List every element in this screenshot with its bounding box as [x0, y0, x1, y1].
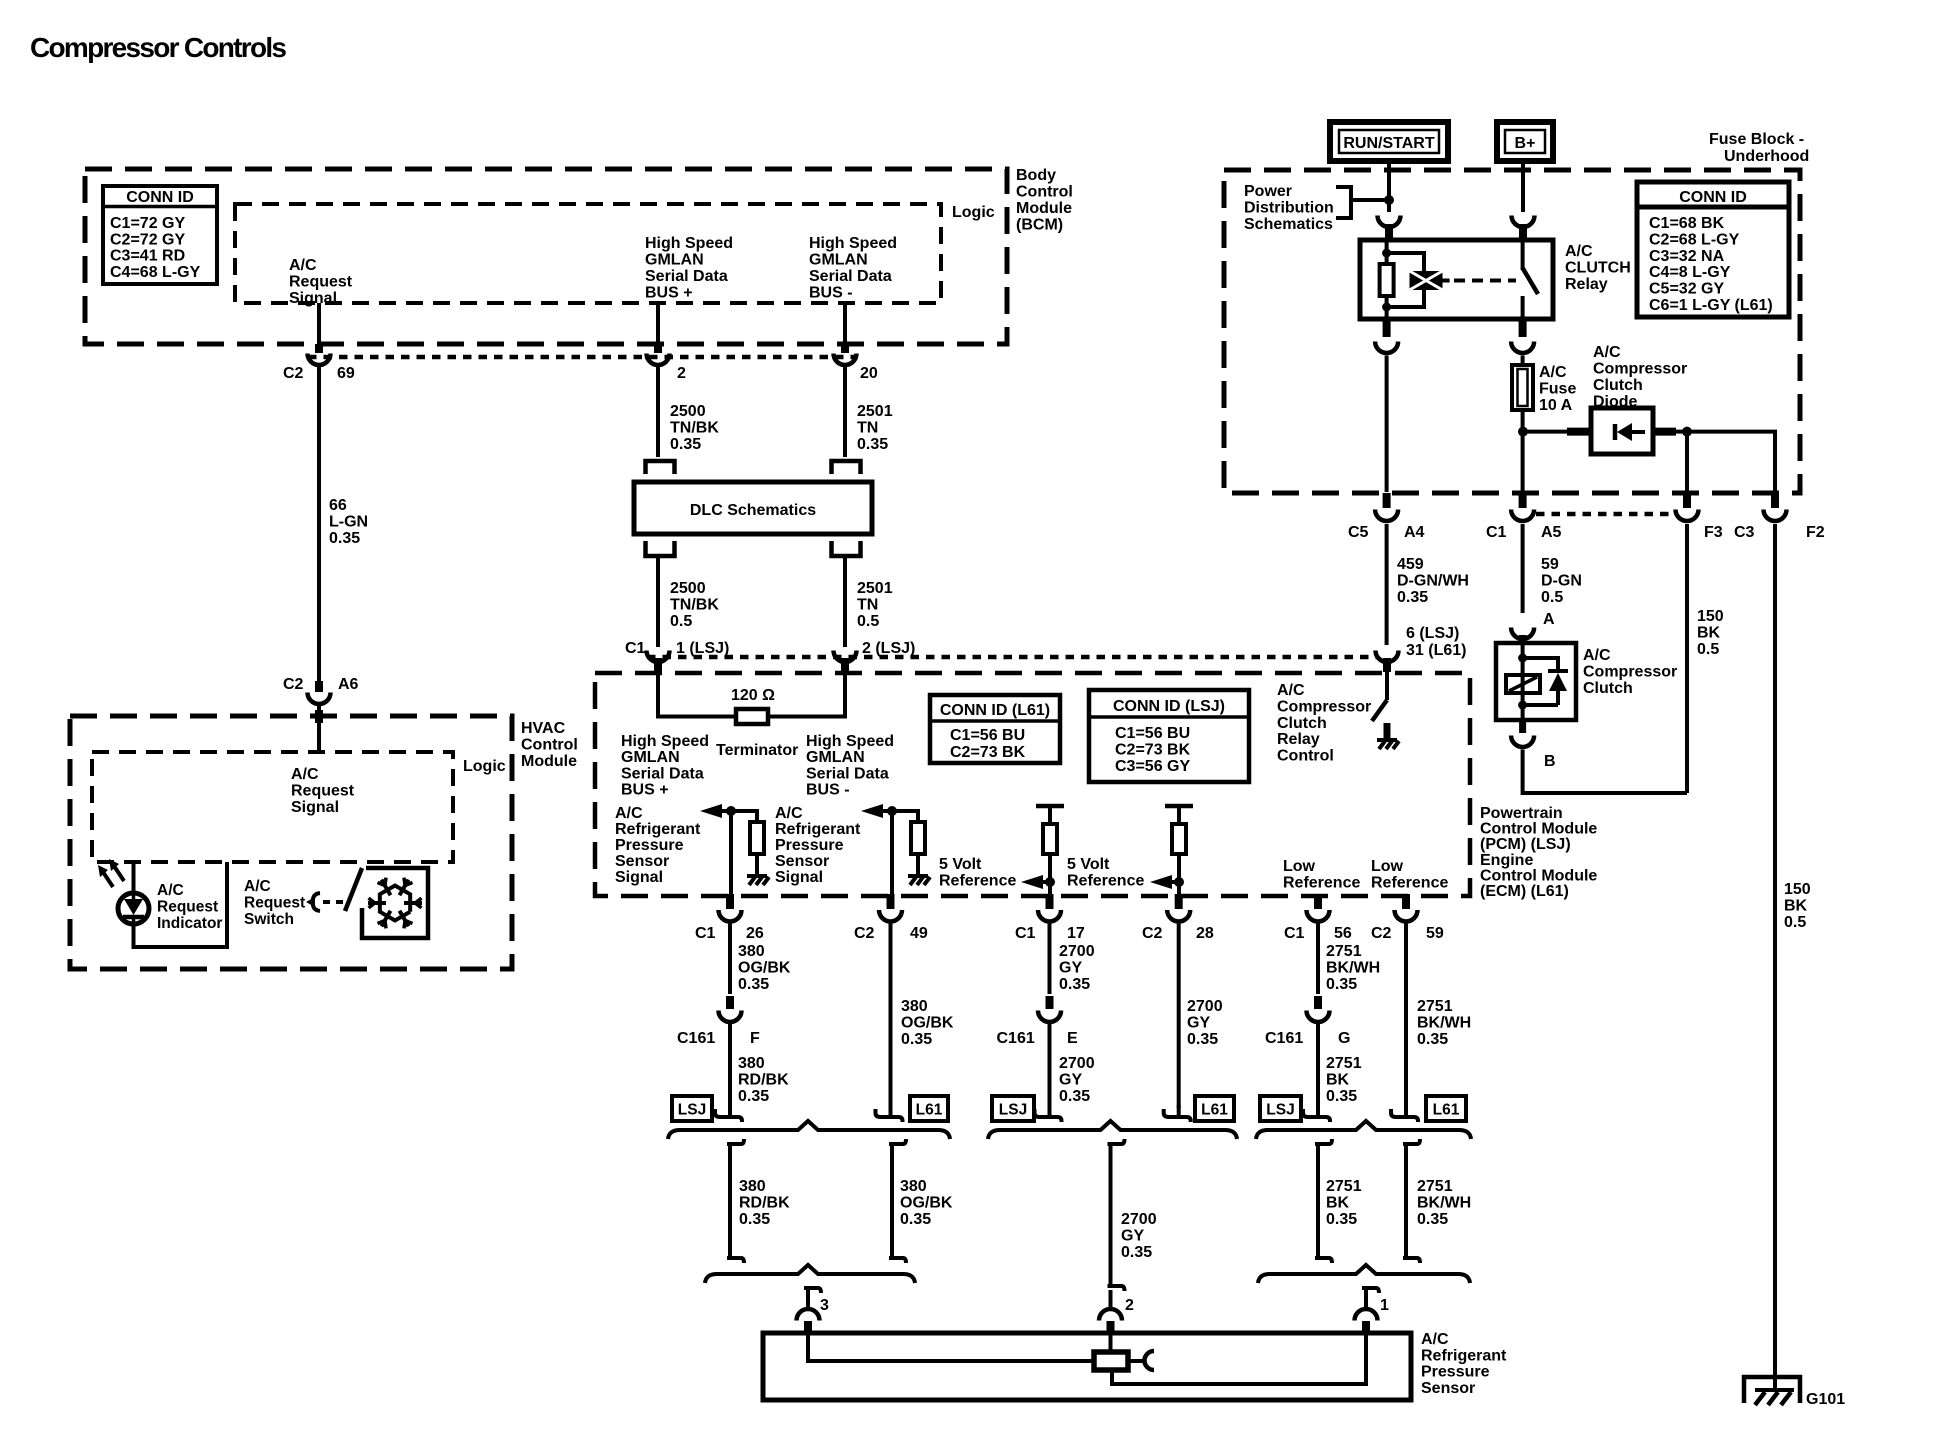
ground: PCM internal (LSJ signal) [747, 876, 769, 885]
wire: circuit 150 BK (F3 leg) [1685, 524, 1689, 793]
svg-text:Control Module: Control Module [1480, 867, 1597, 884]
svg-text:C2: C2 [283, 365, 304, 382]
label: A/C Refrigerant Pressure Sensor [1421, 1331, 1507, 1397]
wire end: E at LSJ [1035, 1105, 1062, 1122]
table: Fuse block CONN ID [1637, 182, 1789, 317]
label: pin 1 [1380, 1297, 1389, 1314]
connector pin 6 LSJ / 31 L61 (PCM) [1376, 651, 1399, 673]
connector C1 pin 56 (PCM bottom) [1307, 894, 1330, 922]
svg-text:Schematics: Schematics [1244, 216, 1333, 233]
svg-text:BK/WH: BK/WH [1417, 1195, 1471, 1212]
svg-text:66: 66 [329, 497, 347, 514]
wire: sensor pin 1 internal [1112, 1334, 1366, 1384]
harness tag: L61 (28) [1195, 1096, 1234, 1121]
label: Low Reference (L61) [1371, 858, 1448, 892]
wire: circuit 59 D-GN (A5 to clutch) [1521, 524, 1525, 613]
svg-text:Compressor: Compressor [1277, 698, 1371, 715]
harness tag: LSJ (G) [1260, 1096, 1301, 1121]
label: C1 (PCM) [625, 640, 646, 657]
label: A/C Request Signal (HVAC) [291, 766, 355, 816]
diode symbol [1615, 423, 1645, 441]
relay coil (solenoid) [1410, 271, 1443, 290]
wire: pin 28 to splice [1177, 923, 1181, 1108]
wire: driver to ground stub [1384, 723, 1391, 738]
svg-text:A/C: A/C [1593, 344, 1621, 361]
label: Low Reference (LSJ) [1283, 858, 1360, 892]
svg-text:A: A [1543, 611, 1555, 628]
svg-text:(PCM) (LSJ): (PCM) (LSJ) [1480, 836, 1571, 853]
wire label: 380 RD/BK 0.35 (C161 F) [738, 1055, 789, 1105]
wire label: 2751 BK 0.35 (C161 G) [1326, 1055, 1362, 1105]
svg-text:TN: TN [857, 597, 878, 614]
wire: circuit 2500 TN/BK 0.35 (BCM to DLC) [656, 367, 660, 458]
svg-text:0.35: 0.35 [739, 1211, 770, 1228]
svg-text:High Speed: High Speed [645, 235, 733, 252]
switch function box (snowflake housing) [362, 868, 428, 938]
label: C1 (pin 26) [695, 925, 716, 942]
5V supply bar (LSJ) [1036, 806, 1064, 824]
wire: LED indicator to logic [132, 862, 136, 893]
diode box: A/C compressor clutch diode [1591, 408, 1653, 454]
table: CONN ID (LSJ) [1089, 690, 1249, 782]
wire: F3 drop [1685, 432, 1689, 492]
svg-text:C3=56 GY: C3=56 GY [1115, 758, 1190, 775]
svg-text:C3: C3 [1734, 524, 1755, 541]
wire: clutch internal main [1521, 644, 1525, 719]
wire: GMLAN BUS + inside BCM [656, 303, 660, 346]
svg-text:GY: GY [1059, 960, 1082, 977]
ground: relay control driver [1377, 740, 1399, 749]
svg-text:Request: Request [291, 783, 355, 800]
svg-text:GMLAN: GMLAN [645, 252, 704, 269]
svg-text:49: 49 [910, 925, 928, 942]
logic box: BCM logic [235, 204, 941, 303]
svg-text:C161: C161 [1265, 1030, 1303, 1047]
svg-text:Signal: Signal [775, 869, 823, 886]
wire label: 2700 GY 0.35 (pin 28) [1187, 998, 1223, 1048]
svg-text:10 A: 10 A [1539, 397, 1573, 414]
wire label: 459 D-GN/WH 0.35 [1397, 556, 1469, 606]
svg-text:380: 380 [738, 943, 765, 960]
wire label: 66 L-GN 0.35 [329, 497, 368, 547]
table: CONN ID (L61) [930, 695, 1060, 763]
svg-text:Logic: Logic [463, 758, 506, 775]
svg-text:Module: Module [1016, 200, 1072, 217]
node: relay coil top [1382, 249, 1391, 258]
wire: GMLAN BUS - inside BCM [843, 303, 847, 346]
fuse: A/C Fuse 10A [1512, 365, 1533, 410]
wire label: 2700 GY 0.35 (C161 E) [1059, 1055, 1095, 1105]
svg-text:Low: Low [1371, 858, 1404, 875]
label: A/C Compressor Clutch Diode [1593, 344, 1687, 411]
svg-text:2500: 2500 [670, 580, 706, 597]
svg-text:LSJ: LSJ [678, 1102, 706, 1119]
wire: B+ feed [1521, 161, 1525, 212]
svg-text:BUS -: BUS - [806, 782, 850, 799]
label: C2 (HVAC) [283, 676, 304, 693]
wire label: 2501 TN 0.5 [857, 580, 893, 630]
wire: splice to sensor pin 1 [1362, 1288, 1379, 1307]
svg-text:BUS -: BUS - [809, 285, 853, 302]
label: Body Control Module (BCM) [1016, 167, 1073, 234]
svg-text:0.35: 0.35 [1326, 1088, 1357, 1105]
splice brace: F/49 group (bottom) [705, 1265, 915, 1283]
svg-text:A/C: A/C [775, 805, 803, 822]
title: Compressor Controls [30, 32, 287, 63]
svg-text:High Speed: High Speed [806, 733, 894, 750]
wire: pin 26 to C161 F [728, 923, 732, 994]
label: C1 (pin 17) [1015, 925, 1036, 942]
svg-text:380: 380 [739, 1178, 766, 1195]
svg-text:2501: 2501 [857, 403, 893, 420]
svg-text:DLC Schematics: DLC Schematics [690, 502, 816, 519]
svg-text:C2=68 L-GY: C2=68 L-GY [1649, 231, 1740, 248]
wire label: 150 BK 0.5 (F2) [1784, 881, 1811, 931]
svg-text:Relay: Relay [1277, 731, 1320, 748]
wire: sensor pin 3 internal [808, 1334, 1094, 1361]
svg-text:0.5: 0.5 [670, 613, 692, 630]
svg-text:TN/BK: TN/BK [670, 597, 719, 614]
svg-text:A/C: A/C [1539, 364, 1567, 381]
svg-text:C1: C1 [625, 640, 646, 657]
wire: relay switch output [1521, 296, 1525, 319]
svg-text:C2=73 BK: C2=73 BK [1115, 742, 1191, 759]
wire: clutch B to F3 ground leg [1523, 750, 1687, 794]
svg-text:C2=72 GY: C2=72 GY [110, 231, 185, 248]
svg-text:A/C: A/C [244, 878, 271, 895]
svg-text:TN/BK: TN/BK [670, 420, 719, 437]
svg-text:2751: 2751 [1326, 943, 1362, 960]
svg-text:GMLAN: GMLAN [621, 749, 680, 766]
transducer: pressure sensing element [1094, 1352, 1128, 1370]
wire end: G at LSJ [1303, 1105, 1330, 1122]
wire: fuse to junction [1521, 410, 1525, 492]
svg-text:0.35: 0.35 [1059, 976, 1090, 993]
connector: run/start into fuse block [1378, 216, 1401, 243]
wire: circuit 2501 TN 0.5 (DLC to PCM) [843, 558, 847, 647]
harness label: 2751 BK 0.35 [1326, 1178, 1362, 1228]
node: diode out junction [1682, 427, 1692, 437]
label: C2 [283, 365, 304, 382]
wire label: 2500 TN/BK 0.5 [670, 580, 719, 630]
svg-text:Refrigerant: Refrigerant [775, 821, 861, 838]
label: A/C Fuse 10 A [1539, 364, 1576, 414]
wire: relay 87 to fuse [1521, 356, 1525, 366]
label: High Speed GMLAN Serial Data BUS - (BCM) [809, 235, 897, 302]
connector: B+ into fuse block [1512, 216, 1535, 243]
svg-text:Serial Data: Serial Data [621, 765, 704, 782]
connector C2 pin 20 (BCM) [834, 344, 857, 365]
5V supply bar (L61) [1165, 806, 1193, 824]
label: Power Distribution Schematics [1244, 183, 1334, 233]
wire: resistor to ground LSJ [755, 854, 759, 874]
label: A4 [1404, 524, 1425, 541]
svg-text:56: 56 [1334, 925, 1352, 942]
svg-text:Sensor: Sensor [615, 853, 669, 870]
svg-text:F2: F2 [1806, 524, 1825, 541]
label: Powertrain Control Module (PCM) (LSJ) Engine Control Module (ECM) (L61) [1480, 805, 1597, 900]
svg-text:CLUTCH: CLUTCH [1565, 260, 1631, 277]
power feed box: RUN/START [1330, 122, 1448, 161]
wire: BUS - to terminator [768, 672, 845, 717]
wire: 5V ref resistor to junction (LSJ) [1048, 854, 1052, 895]
svg-text:OG/BK: OG/BK [738, 960, 791, 977]
svg-text:120 Ω: 120 Ω [731, 687, 775, 704]
harness tag: LSJ (F) [672, 1096, 712, 1121]
svg-text:380: 380 [738, 1055, 765, 1072]
wire label: 2751 BK/WH 0.35 (pin 56) [1326, 943, 1380, 993]
label: High Speed GMLAN Serial Data BUS + (BCM) [645, 235, 733, 302]
svg-text:59: 59 [1541, 556, 1559, 573]
svg-text:Low: Low [1283, 858, 1316, 875]
svg-text:Indicator: Indicator [157, 915, 222, 932]
svg-text:Reference: Reference [1371, 875, 1448, 892]
connector pin A (compressor clutch) [1511, 628, 1534, 645]
wire: circuit 2500 TN/BK 0.5 (DLC to PCM) [656, 558, 660, 647]
LED: A/C Request Indicator [118, 893, 149, 924]
label: A/C CLUTCH Relay [1565, 243, 1631, 293]
svg-text:OG/BK: OG/BK [900, 1195, 953, 1212]
svg-text:C4=68 L-GY: C4=68 L-GY [110, 264, 201, 281]
svg-text:GY: GY [1121, 1228, 1144, 1245]
label: pin 2 [1125, 1297, 1134, 1314]
component box: A/C Refrigerant Pressure Sensor [763, 1333, 1411, 1400]
svg-text:0.35: 0.35 [738, 1088, 769, 1105]
svg-text:A/C: A/C [1565, 243, 1593, 260]
svg-text:0.5: 0.5 [857, 613, 879, 630]
svg-text:B: B [1544, 753, 1556, 770]
svg-text:Pressure: Pressure [1421, 1364, 1490, 1381]
node: relay coil bottom [1382, 303, 1391, 312]
label: C2 (pin 59) [1371, 925, 1392, 942]
wire: RUN/START feed [1387, 161, 1391, 212]
label: F2 [1806, 524, 1825, 541]
svg-text:Control: Control [521, 737, 578, 754]
transducer port symbol [1128, 1351, 1154, 1370]
module box: Fuse Block - Underhood [1224, 170, 1800, 493]
svg-text:Powertrain: Powertrain [1480, 805, 1563, 822]
label: 49 [910, 925, 928, 942]
svg-text:CONN ID (LSJ): CONN ID (LSJ) [1113, 698, 1225, 715]
table: BCM CONN ID [103, 186, 217, 284]
svg-text:0.35: 0.35 [900, 1211, 931, 1228]
svg-text:RD/BK: RD/BK [739, 1195, 790, 1212]
connector pin 2 (pressure sensor) [1099, 1309, 1122, 1334]
svg-text:0.35: 0.35 [901, 1031, 932, 1048]
relay coil branch [1387, 253, 1424, 307]
svg-text:3: 3 [820, 1297, 829, 1314]
label: 20 [860, 365, 878, 382]
svg-text:L61: L61 [1433, 1102, 1460, 1119]
svg-text:Request: Request [289, 274, 353, 291]
wire: resistor to ground L61 [916, 854, 920, 874]
svg-text:2501: 2501 [857, 580, 893, 597]
svg-text:C2: C2 [1371, 925, 1392, 942]
wire label: 380 OG/BK 0.35 (pin 26) [738, 943, 791, 993]
node: junction pressure signal LSJ [726, 806, 736, 816]
label: G [1338, 1030, 1350, 1047]
label: C161 (pin F) [677, 1030, 715, 1047]
label: Logic (BCM) [952, 204, 995, 221]
svg-text:A5: A5 [1541, 524, 1562, 541]
label: 5 Volt Reference (LSJ) [939, 856, 1016, 890]
svg-text:2700: 2700 [1059, 1055, 1095, 1072]
svg-text:C1=56 BU: C1=56 BU [1115, 725, 1190, 742]
svg-text:BUS +: BUS + [621, 782, 669, 799]
svg-text:CONN ID: CONN ID [126, 189, 194, 206]
svg-text:C3=41 RD: C3=41 RD [110, 248, 185, 265]
splice brace: E/28 group (top) [988, 1121, 1237, 1139]
svg-text:C1: C1 [1015, 925, 1036, 942]
connector C1 pin 26 (PCM bottom) [719, 894, 742, 922]
svg-text:2 (LSJ): 2 (LSJ) [862, 640, 915, 657]
switch pivot: A/C request switch [306, 893, 320, 911]
switch blade [345, 868, 362, 911]
svg-text:6 (LSJ): 6 (LSJ) [1406, 625, 1459, 642]
label: HVAC Control Module [521, 720, 578, 770]
svg-text:20: 20 [860, 365, 878, 382]
svg-text:59: 59 [1426, 925, 1444, 942]
svg-text:OG/BK: OG/BK [901, 1015, 954, 1032]
connector C1 pin 17 (PCM bottom) [1038, 894, 1061, 922]
svg-text:380: 380 [900, 1178, 927, 1195]
wire: A/C request signal inside BCM [317, 303, 321, 346]
relay switch blade [1523, 268, 1538, 294]
svg-text:0.35: 0.35 [1121, 1244, 1152, 1261]
relay box: A/C Clutch Relay [1360, 240, 1553, 319]
svg-text:Engine: Engine [1480, 852, 1533, 869]
label: C3 [1734, 524, 1755, 541]
svg-text:2751: 2751 [1326, 1178, 1362, 1195]
reference bracket: power distribution [1336, 187, 1389, 218]
svg-text:TN: TN [857, 420, 878, 437]
label: 120 ohm [731, 687, 775, 704]
label: C161 (pin E) [997, 1030, 1035, 1047]
wire label: 150 BK 0.5 (F3) [1697, 608, 1724, 658]
component box: A/C Compressor Clutch [1496, 643, 1576, 720]
svg-text:BK: BK [1326, 1195, 1350, 1212]
svg-text:2751: 2751 [1417, 998, 1453, 1015]
connector line: BCM C2 (dotted) [308, 355, 856, 360]
label: A/C Request Switch [244, 878, 305, 928]
svg-text:Serial Data: Serial Data [645, 268, 728, 285]
label: C5 [1348, 524, 1369, 541]
harness tag: LSJ (E) [992, 1096, 1034, 1121]
svg-text:(BCM): (BCM) [1016, 217, 1063, 234]
harness wire: 380 OG/BK segment [889, 1139, 906, 1263]
connector: relay load out [1511, 320, 1534, 353]
svg-text:A/C: A/C [291, 766, 319, 783]
svg-text:GMLAN: GMLAN [806, 749, 865, 766]
wire end: F at LSJ [715, 1105, 742, 1122]
svg-text:Refrigerant: Refrigerant [615, 821, 701, 838]
svg-text:C2=73 BK: C2=73 BK [950, 744, 1026, 761]
relay mechanical link (dashed) [1443, 279, 1517, 283]
svg-text:E: E [1067, 1030, 1078, 1047]
wire end: 59 at L61 [1391, 1105, 1418, 1122]
svg-text:2700: 2700 [1187, 998, 1223, 1015]
svg-text:Signal: Signal [289, 290, 337, 307]
connector pin 3 (pressure sensor) [797, 1309, 820, 1334]
ground: G101 [1744, 1377, 1800, 1405]
svg-text:CONN ID: CONN ID [1679, 189, 1747, 206]
svg-text:0.35: 0.35 [1397, 589, 1428, 606]
wire: BUS + to terminator [658, 672, 736, 717]
svg-text:0.35: 0.35 [1417, 1211, 1448, 1228]
connector C1 pin 1 LSJ (PCM) [647, 651, 670, 673]
svg-text:HVAC: HVAC [521, 720, 566, 737]
resistor: PCM internal (L61 signal) [911, 822, 925, 854]
clutch diode symbol [1548, 671, 1568, 691]
harness tag: L61 (59) [1426, 1096, 1466, 1121]
label: A/C Refrigerant Pressure Sensor Signal (L61) [775, 805, 861, 886]
switch link (dashed) [323, 900, 344, 904]
connector C1 pin 2 LSJ (PCM) [834, 651, 857, 673]
connector line: PCM C1 (dotted) [647, 655, 1378, 660]
wire: circuit 2501 TN 0.35 (BCM to DLC) [843, 367, 847, 458]
svg-text:2751: 2751 [1417, 1178, 1453, 1195]
svg-text:Body: Body [1016, 167, 1056, 184]
label: A/C Compressor Clutch [1583, 647, 1677, 697]
svg-text:0.5: 0.5 [1784, 914, 1806, 931]
svg-text:A/C: A/C [1421, 1331, 1449, 1348]
svg-text:C2: C2 [1142, 925, 1163, 942]
connector C2 pin 69 (BCM) [308, 344, 331, 365]
svg-text:1 (LSJ): 1 (LSJ) [676, 640, 729, 657]
svg-text:0.35: 0.35 [670, 436, 701, 453]
svg-text:C2: C2 [283, 676, 304, 693]
wire: LED loop to logic [134, 862, 228, 947]
svg-text:2500: 2500 [670, 403, 706, 420]
svg-text:Sensor: Sensor [1421, 1380, 1475, 1397]
svg-text:Serial Data: Serial Data [809, 268, 892, 285]
label: C1 (pin 56) [1284, 925, 1305, 942]
splice brace: G/59 group (top) [1256, 1121, 1471, 1139]
svg-text:BUS +: BUS + [645, 285, 693, 302]
label: 28 [1196, 925, 1214, 942]
wire label: 2751 BK/WH 0.35 (pin 59) [1417, 998, 1471, 1048]
wire: relay control driver [1385, 672, 1389, 700]
resistor: 120 ohm terminator [736, 709, 768, 724]
wire: pin 49 to LSJ/L61 splice [889, 923, 893, 1108]
svg-text:Refrigerant: Refrigerant [1421, 1347, 1507, 1364]
svg-text:Reference: Reference [1283, 875, 1360, 892]
svg-text:17: 17 [1067, 925, 1085, 942]
label: 26 [746, 925, 764, 942]
label: A/C Refrigerant Pressure Sensor Signal (LSJ) [615, 805, 701, 886]
svg-text:5 Volt: 5 Volt [939, 856, 982, 873]
svg-text:26: 26 [746, 925, 764, 942]
label: 1 (LSJ) [676, 640, 729, 657]
wire: pin 59 to splice [1404, 923, 1408, 1108]
harness label: 380 OG/BK 0.35 [900, 1178, 953, 1228]
svg-text:2: 2 [677, 365, 686, 382]
svg-text:Control: Control [1016, 184, 1073, 201]
svg-text:Underhood: Underhood [1724, 148, 1809, 165]
svg-text:459: 459 [1397, 556, 1424, 573]
label: C2 (pin 28) [1142, 925, 1163, 942]
wire: splice to sensor pin 2 [1109, 1290, 1113, 1307]
svg-text:31 (L61): 31 (L61) [1406, 642, 1466, 659]
svg-text:LSJ: LSJ [999, 1102, 1027, 1119]
wire: pin 56 to C161 G [1316, 923, 1320, 994]
wire: sensor pin 2 internal [1109, 1334, 1113, 1352]
label: Terminator [716, 742, 798, 759]
svg-text:Compressor: Compressor [1593, 361, 1687, 378]
wire: relay coil top [1385, 240, 1389, 264]
clutch coil (actuator) [1506, 675, 1540, 693]
svg-text:Signal: Signal [291, 799, 339, 816]
